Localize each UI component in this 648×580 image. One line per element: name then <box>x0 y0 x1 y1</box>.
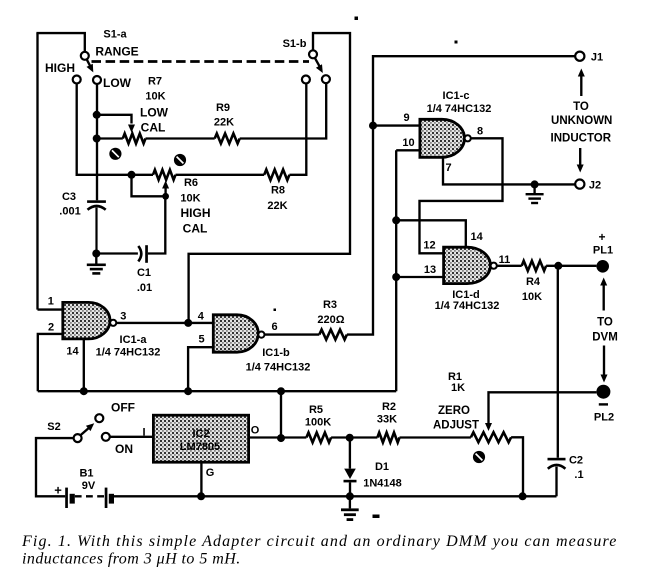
svg-text:8: 8 <box>477 126 483 138</box>
arrowhead of S1-b arm <box>316 64 323 73</box>
capacitor C1 .01 <box>138 245 148 263</box>
wire: pin 9 of IC1-c <box>373 124 420 126</box>
wire: S2 ON contact to IC2 input <box>110 436 154 438</box>
wire: bottom battery-minus wire <box>114 495 557 497</box>
wire: ground stub below C3 node <box>95 254 97 264</box>
wire: R3 up to J1 line (long vertical) <box>347 56 575 334</box>
junction: J1 line / IC1-c pin 9 <box>369 122 377 130</box>
op-amp U1: NAND gate IC1-a body <box>63 302 110 339</box>
switch S1-a LOW throw contact <box>93 76 101 84</box>
wire: C1 to R6 wiper junction <box>148 196 165 253</box>
resistor R2 33K <box>377 433 399 443</box>
svg-text:OFF: OFF <box>111 401 135 415</box>
wire: rail branch vertical <box>280 391 282 438</box>
junction: J2 line / ground <box>531 180 539 188</box>
arrowhead to J1 <box>578 69 585 77</box>
op-amp U4: NAND gate IC1-d body <box>444 247 491 283</box>
trimmer screw of R6 <box>174 154 186 166</box>
svg-text:HIGH: HIGH <box>45 61 75 75</box>
svg-text:12: 12 <box>423 240 435 252</box>
svg-text:D1: D1 <box>375 461 389 473</box>
node C: scan speck above pin 6 <box>274 309 277 312</box>
wire: S1-b pole up over to long vertical <box>189 33 350 321</box>
trimmer screw of R1 <box>473 451 485 463</box>
svg-text:UNKNOWN: UNKNOWN <box>551 115 612 127</box>
svg-text:.1: .1 <box>574 469 583 481</box>
label - of PL2 <box>599 403 608 405</box>
wire: inductor arrow stem upper <box>580 76 582 97</box>
junction: R6 wiper / C1 <box>162 193 169 200</box>
svg-text:1/4 74HC132: 1/4 74HC132 <box>427 103 492 115</box>
svg-text:G: G <box>206 467 215 479</box>
svg-text:S2: S2 <box>47 421 60 433</box>
inverting bubble of IC1-a <box>110 320 116 326</box>
svg-text:R3: R3 <box>323 299 337 311</box>
resistor R5 100K <box>306 433 331 443</box>
svg-text:1N4148: 1N4148 <box>363 478 402 490</box>
node D: scan speck below D1 ground <box>373 515 380 519</box>
wire: R7-R9 row middle segment <box>146 137 215 139</box>
svg-text:R6: R6 <box>184 177 198 189</box>
svg-text:CAL: CAL <box>141 121 166 135</box>
wire: ground stub below D1 <box>349 496 351 508</box>
svg-text:R2: R2 <box>382 401 396 413</box>
arrowhead to J2 <box>577 165 584 173</box>
svg-text:33K: 33K <box>377 414 397 426</box>
arrowhead of R7 wiper <box>128 125 135 133</box>
switch S1-a pole contact <box>81 52 89 60</box>
svg-text:3: 3 <box>120 311 126 323</box>
svg-text:.01: .01 <box>137 282 152 294</box>
ground symbol below D1 <box>341 508 359 521</box>
connector J2 <box>575 180 584 189</box>
svg-text:1/4 74HC132: 1/4 74HC132 <box>246 362 311 374</box>
junction: node pin3/pin4/S1-b line <box>184 319 192 327</box>
svg-text:C1: C1 <box>137 267 151 279</box>
svg-text:TO: TO <box>573 101 589 113</box>
arrowhead of R6 wiper <box>162 181 169 189</box>
junction: R6/R8 row / wiper tie <box>128 171 136 179</box>
svg-text:IC1-b: IC1-b <box>262 347 290 359</box>
svg-text:11: 11 <box>499 254 511 266</box>
node A: scan speck near S1-b <box>355 17 359 21</box>
svg-text:ON: ON <box>115 442 133 456</box>
svg-text:LM7805: LM7805 <box>180 441 220 453</box>
svg-text:I: I <box>142 427 145 439</box>
wire: S2 arm <box>80 428 88 435</box>
junction: bottom wire / IC2 ground <box>197 492 205 500</box>
wire: IC1-b output to R3 <box>265 333 320 335</box>
wire: pin 1 of IC1-a <box>38 308 63 310</box>
svg-text:C2: C2 <box>569 455 583 467</box>
switch S1-a HIGH throw contact <box>73 76 81 84</box>
svg-text:HIGH: HIGH <box>181 206 211 220</box>
junction: rail / IC1-b pin 5 <box>184 387 192 395</box>
svg-text:100K: 100K <box>305 417 331 429</box>
wire: PL1 node down to C2 <box>557 266 559 458</box>
svg-text:ZERO: ZERO <box>438 405 470 417</box>
svg-text:INDUCTOR: INDUCTOR <box>551 133 612 145</box>
wire: R5 to R2 <box>331 436 377 438</box>
wire: IC2 ground pin down <box>200 462 202 496</box>
svg-text:14: 14 <box>66 346 79 358</box>
wire: IC1-a output to IC1-b pin 4 <box>116 322 213 324</box>
junction: +5V vertical / pin 13 branch <box>392 273 400 281</box>
svg-text:ADJUST: ADJUST <box>433 420 479 432</box>
potentiometer R6 10K HIGH CAL <box>153 170 176 180</box>
wire: +5V vertical (pins 10/14/13) down to rail <box>395 150 397 391</box>
wire: R4 to PL1 <box>546 265 596 267</box>
potentiometer R7 10K LOW CAL <box>123 134 146 144</box>
wire: R2 to R1 <box>400 436 471 438</box>
svg-text:+: + <box>598 230 605 244</box>
svg-text:C3: C3 <box>62 191 76 203</box>
wire: S1-b switch arm <box>315 58 320 67</box>
junction: IC2 output / rail branch <box>277 434 285 442</box>
switch S1-b right throw contact <box>322 75 330 83</box>
wire: R7-R9 row left segment <box>97 137 123 139</box>
node B: scan speck above IC1-c <box>455 41 458 44</box>
wire: pin 14 of IC1-d from +5V vertical <box>396 220 466 247</box>
arrowhead to PL2 <box>601 375 608 383</box>
svg-text:1: 1 <box>48 295 54 307</box>
wire: mechanical link S1-a to S1-b (dashed) <box>92 60 310 63</box>
wire: pin 14 of IC1-a down to +5V rail <box>83 339 85 391</box>
svg-text:IC1-a: IC1-a <box>120 334 148 346</box>
wire: pin 2 of IC1-a tied to +5V rail <box>38 334 63 391</box>
wire: R6/R8 row middle segment <box>176 174 265 176</box>
svg-text:14: 14 <box>470 231 483 243</box>
wire: pin 13 of IC1-d <box>396 276 443 278</box>
ground symbol near J2 <box>526 193 544 204</box>
junction: rail / IC2 output <box>277 387 285 395</box>
wire: +5V rail <box>38 390 396 392</box>
svg-text:Fig. 1. With this simple Adapt: Fig. 1. With this simple Adapter circuit… <box>21 533 617 550</box>
svg-text:PL2: PL2 <box>594 412 614 424</box>
op-amp U3: NAND gate IC1-c body <box>420 119 465 157</box>
arrowhead of S2 arm <box>86 423 94 431</box>
resistor R3 220 ohm <box>319 330 347 340</box>
svg-text:22K: 22K <box>214 117 234 129</box>
svg-text:1K: 1K <box>451 382 465 394</box>
inverting bubble of IC1-b <box>258 332 264 338</box>
svg-text:1/4 74HC132: 1/4 74HC132 <box>96 347 161 359</box>
svg-text:1/4 74HC132: 1/4 74HC132 <box>435 300 500 312</box>
svg-text:IC1-c: IC1-c <box>443 90 470 102</box>
arrowhead of R1 wiper <box>485 423 492 431</box>
IC2 voltage regulator LM7805 box <box>153 415 248 462</box>
svg-text:J1: J1 <box>591 52 603 64</box>
wire: DVM arrow stem lower <box>603 346 605 376</box>
wire: IC1-c output feedback to IC1-d pin 12 <box>420 138 503 253</box>
svg-text:4: 4 <box>198 311 205 323</box>
svg-text:R4: R4 <box>526 276 541 288</box>
svg-text:LOW: LOW <box>103 76 132 90</box>
capacitor C2 .1 <box>548 458 566 469</box>
svg-text:inductances from 3 μH to 5 mH.: inductances from 3 μH to 5 mH. <box>22 551 241 568</box>
wire: R6 wiper down to junction <box>164 185 166 196</box>
svg-text:9V: 9V <box>82 480 96 492</box>
svg-text:S1-a: S1-a <box>103 29 127 41</box>
junction: bottom wire / D1 / ground <box>346 492 354 500</box>
wire: D1 anode from junction <box>349 438 351 469</box>
svg-text:7: 7 <box>445 162 451 174</box>
terminal PL1 (plug tip) <box>596 260 609 273</box>
svg-text:CAL: CAL <box>183 222 208 236</box>
ground symbol below C3 <box>87 264 106 275</box>
junction: C3 / C1 / ground node <box>92 250 100 258</box>
wire: ground node to C1 <box>96 252 138 254</box>
wire: S1-a switch arm <box>87 59 91 67</box>
wire: R1 wiper up and over to PL2 <box>489 392 597 425</box>
switch S2 pole contact <box>74 434 82 442</box>
svg-text:R8: R8 <box>271 185 285 197</box>
svg-text:R7: R7 <box>148 76 162 88</box>
battery B1 9V <box>65 488 114 508</box>
wire: inductor arrow stem lower <box>579 148 581 166</box>
svg-text:.001: .001 <box>59 206 80 218</box>
arrowhead to PL1 <box>600 278 607 286</box>
wire: pin 5 of IC1-b tied to +5V rail <box>188 347 213 391</box>
diode D1 1N4148 <box>344 469 357 483</box>
svg-text:J2: J2 <box>589 180 601 192</box>
wire: left vertical from top corner to IC1-a pin 1 <box>36 33 38 310</box>
switch S1-b left throw contact <box>302 76 310 84</box>
svg-text:O: O <box>251 425 260 437</box>
trimmer screw of R7 <box>109 148 121 160</box>
capacitor C3 .001 <box>87 200 106 253</box>
svg-text:LOW: LOW <box>140 106 169 120</box>
wire: D1 cathode to bottom wire <box>349 482 351 496</box>
terminal PL2 (plug tip) <box>596 385 610 399</box>
junction: LOW line / R7 wiper branch <box>93 111 101 119</box>
svg-text:220Ω: 220Ω <box>317 314 344 326</box>
svg-text:R9: R9 <box>216 102 230 114</box>
potentiometer R1 1K ZERO ADJUST <box>471 432 511 442</box>
resistor R8 22K <box>264 170 289 181</box>
svg-text:DVM: DVM <box>592 332 618 344</box>
svg-text:IC2: IC2 <box>192 428 209 440</box>
svg-text:PL1: PL1 <box>593 245 613 257</box>
wire: pin 7 of IC1-c to ground / J2 <box>443 157 575 184</box>
svg-text:B1: B1 <box>79 468 93 480</box>
svg-text:10: 10 <box>402 137 414 149</box>
wire: R7 wiper branch <box>97 115 132 124</box>
svg-text:5: 5 <box>198 334 204 346</box>
resistor R9 22K <box>215 134 240 144</box>
svg-text:S1-b: S1-b <box>283 38 307 50</box>
wire: R1 right terminal down to bottom wire <box>511 437 523 496</box>
wire: R7-R9 row right segment up to S1-b right contact <box>240 83 327 138</box>
svg-text:13: 13 <box>424 264 436 276</box>
wire: IC1-d output to R4 <box>497 265 522 267</box>
junction: +5V vertical / pin 14 branch <box>392 216 400 224</box>
wire: IC2 output to R5 and rail branch <box>249 436 307 438</box>
svg-text:9: 9 <box>404 112 410 124</box>
junction: bottom wire / R1 right terminal <box>519 492 527 500</box>
wire: DVM arrow stem upper <box>603 284 605 311</box>
svg-text:RANGE: RANGE <box>95 45 138 59</box>
resistor R4 10K <box>522 261 546 271</box>
wire: R6 wiper tie to row <box>132 175 166 197</box>
inverting bubble of IC1-c <box>465 135 471 141</box>
junction: LOW line / R7-R9 row <box>93 135 101 143</box>
svg-text:22K: 22K <box>267 200 287 212</box>
wire: pin 10 of IC1-c to +5V vertical <box>396 149 420 151</box>
arrowhead of S1-a arm <box>87 64 94 73</box>
svg-text:R5: R5 <box>309 404 323 416</box>
svg-text:6: 6 <box>271 321 277 333</box>
svg-text:10K: 10K <box>522 291 542 303</box>
wire: C2 down to bottom wire corner <box>555 467 557 497</box>
svg-text:2: 2 <box>48 322 54 334</box>
svg-text:10K: 10K <box>145 91 165 103</box>
switch S1-b pole contact <box>309 50 317 58</box>
wire: S2 pole to battery + <box>36 438 74 496</box>
wire: HIGH contact down and R6/R8 row left segment <box>77 84 153 175</box>
connector J1 <box>575 52 584 61</box>
wire: R6/R8 row right segment up to S1-b left contact <box>289 84 306 175</box>
switch S2 OFF throw contact <box>95 414 103 422</box>
svg-text:+: + <box>54 483 62 498</box>
junction: R4 / C2 branch <box>554 262 562 270</box>
junction: rail / IC1-a pin 14 <box>80 387 88 395</box>
inverting bubble of IC1-d <box>491 263 497 269</box>
wire: LOW contact down to C3 <box>96 84 98 200</box>
op-amp U2: NAND gate IC1-b body <box>213 315 258 352</box>
svg-text:10K: 10K <box>180 193 200 205</box>
svg-text:TO: TO <box>597 317 613 329</box>
wire: ground stub below J2 junction <box>533 184 535 193</box>
switch S2 ON throw contact <box>102 433 110 441</box>
wire: top-left horizontal to S1-a pole <box>36 33 84 52</box>
junction: R5 / R2 / D1 <box>346 434 354 442</box>
